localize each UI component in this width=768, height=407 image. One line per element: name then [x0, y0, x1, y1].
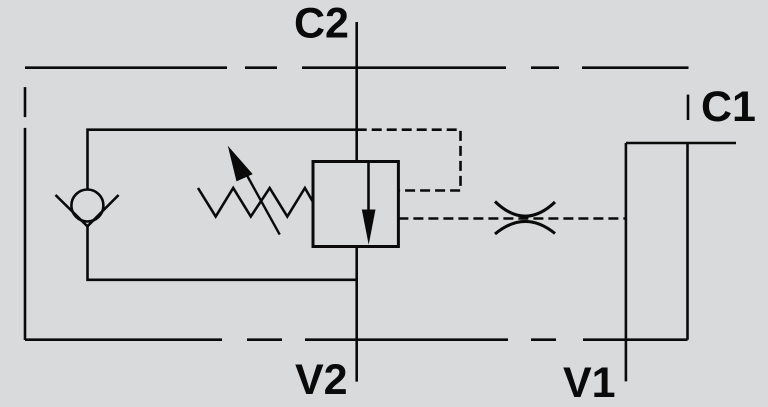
- pilot line dashed from C2: [357, 130, 461, 191]
- wire check-valve loop bottom: [88, 226, 357, 279]
- wire C2 upper segment: [355, 22, 358, 162]
- manifold boundary top phantom line: [25, 66, 689, 69]
- valve internal flow line: [367, 162, 370, 214]
- check valve CV1 ball: [71, 190, 103, 222]
- manifold boundary right phantom dash (port C1 stub): [687, 95, 690, 120]
- wire V2 lower segment: [355, 247, 358, 382]
- wire V1 vertical: [625, 143, 628, 381]
- wire check-valve loop top: [88, 130, 357, 190]
- check valve CV1 seat: [56, 195, 119, 226]
- adjustment arrow shaft: [244, 170, 280, 235]
- valve internal flow arrow: [362, 210, 376, 245]
- orifice O1 upper arc: [495, 202, 555, 217]
- manifold boundary bottom phantom line: [25, 338, 688, 341]
- counterbalance valve body U1: [313, 162, 398, 247]
- svg-text:V2: V2: [295, 356, 348, 404]
- pilot line dashed through orifice to V1: [398, 217, 626, 220]
- wire C1 vertical: [686, 143, 689, 340]
- orifice O1 lower arc: [495, 221, 555, 234]
- wire C1-V1 header: [626, 142, 736, 145]
- adjustment arrow head: [228, 146, 253, 182]
- svg-text:C1: C1: [701, 83, 756, 131]
- svg-text:V1: V1: [563, 359, 616, 407]
- spring K1: [198, 188, 313, 217]
- manifold boundary left phantom line: [24, 87, 27, 340]
- svg-text:C2: C2: [294, 0, 349, 48]
